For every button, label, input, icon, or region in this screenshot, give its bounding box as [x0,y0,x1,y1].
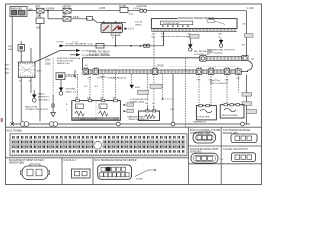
svg-text:VEHICLE SPEED: VEHICLE SPEED [222,115,239,117]
svg-text:TO INSTRUMENT CLUSTER: TO INSTRUMENT CLUSTER [82,55,111,57]
svg-text:1-B: 1-B [251,59,255,61]
svg-text:0.8 L/R: 0.8 L/R [135,22,142,24]
svg-text:2030: 2030 [45,59,51,62]
svg-text:TO TNS, TAIL RELAY: TO TNS, TAIL RELAY [66,43,88,46]
svg-text:3030: 3030 [5,72,11,74]
svg-text:3/C: 3/C [101,77,105,79]
svg-text:W-01 TRANSAXLE RANGE SW CENTER: W-01 TRANSAXLE RANGE SW CENTER [95,159,137,162]
svg-text:(4WD): 1-8: (4WD): 1-8 [66,92,77,94]
svg-text:GY: GY [84,86,88,88]
svg-text:C-04 IGN COLOUR SYS: C-04 IGN COLOUR SYS [223,149,248,151]
svg-text:S/G: S/G [209,80,213,82]
svg-text:0.8 B: 0.8 B [73,16,79,19]
svg-text:SWITCH (4WD): SWITCH (4WD) [207,52,223,54]
svg-text:WA-02: WA-02 [38,93,45,96]
svg-text:1/A: 1/A [152,32,156,35]
svg-text:4/D: 4/D [219,33,223,35]
svg-text:PCM: PCM [158,64,165,68]
svg-text:3030: 3030 [37,70,43,72]
svg-text:1/B: 1/B [170,109,174,111]
svg-text:(4WD): (4WD) [135,25,142,27]
svg-text:40A: 40A [8,48,12,51]
svg-text:0.3 B/R: 0.3 B/R [133,8,141,10]
svg-text:B-03 PULSE SIGNAL SHIFT: B-03 PULSE SIGNAL SHIFT [190,148,219,151]
svg-text:10A: 10A [63,14,68,17]
svg-text:0.8 B/W: 0.8 B/W [46,8,55,11]
svg-text:4 POSITION SW: 4 POSITION SW [163,23,180,25]
svg-text:TORQUE REDUCE: TORQUE REDUCE [130,99,149,101]
svg-text:GO: GO [94,86,98,88]
svg-text:D-02 DLC-2: D-02 DLC-2 [64,160,77,162]
svg-text:REFER TO: REFER TO [38,97,49,99]
svg-text:C 1-4: C 1-4 [128,29,134,31]
svg-text:C-02 TRANSAXLE RANGE: C-02 TRANSAXLE RANGE [223,129,251,132]
svg-text:GROUND 2: GROUND 2 [38,100,50,102]
svg-text:TO TNS 21-10: TO TNS 21-10 [82,51,97,53]
svg-text:BTN: BTN [36,6,41,9]
svg-text:VSS: VSS [225,80,230,82]
svg-text:GENERATOR: GENERATOR [193,121,206,124]
svg-text:2/B: 2/B [161,33,165,35]
svg-text:REFER 2-30: REFER 2-30 [57,63,70,65]
svg-text:D/R: D/R [8,46,12,48]
svg-text:0.8 G/O: 0.8 G/O [57,42,65,44]
svg-text:SHIFT SOLENOID: SHIFT SOLENOID [210,83,229,85]
svg-text:W-01 PCM(B): W-01 PCM(B) [7,129,23,132]
svg-text:METER: METER [63,6,72,9]
svg-text:4WD: 4WD [135,87,140,89]
svg-text:SENSOR (BM): SENSOR (BM) [9,163,24,165]
svg-text:TURBINE SHAFT: TURBINE SHAFT [129,115,146,118]
svg-text:3030: 3030 [5,68,11,70]
svg-text:WA-02 PCM: WA-02 PCM [25,105,37,108]
svg-text:S/MODE: S/MODE [67,74,76,76]
svg-text:2/E: 2/E [236,78,240,80]
svg-text:SHIFT SOLENOID: SHIFT SOLENOID [80,119,98,121]
svg-text:PARK/NEUTRAL POSITION: PARK/NEUTRAL POSITION [207,48,235,51]
svg-text:GROUND: GROUND [66,89,76,91]
svg-text:B-01 EXHAUST FRONT OXYGEN: B-01 EXHAUST FRONT OXYGEN [9,159,44,162]
svg-text:SIGNAL (4WD): SIGNAL (4WD) [130,101,144,104]
svg-text:TORQUE REDUCE: TORQUE REDUCE [107,78,127,80]
svg-text:CONNECTOR AT PCM: CONNECTOR AT PCM [25,108,48,111]
svg-text:2/C: 2/C [88,77,92,79]
svg-text:SPEED SENSOR: SPEED SENSOR [129,119,146,121]
svg-text:30A: 30A [28,8,33,11]
svg-text:15A: 15A [36,14,41,17]
svg-text:1-06: 1-06 [88,44,93,46]
svg-text:PULSE GEN: PULSE GEN [198,117,210,119]
svg-text:LEVER: LEVER [136,179,143,181]
svg-text:1/C: 1/C [75,77,79,79]
svg-text:IG SW: IG SW [119,5,127,8]
svg-text:1 1-09: 1 1-09 [247,7,254,10]
svg-text:TRANSAXLE RANGE SWITCH: TRANSAXLE RANGE SWITCH [178,16,214,20]
svg-text:P/G: P/G [197,80,201,82]
svg-text:3030: 3030 [5,64,11,66]
svg-text:MAIN ABS: MAIN ABS [11,8,23,11]
svg-text:2030: 2030 [45,63,51,66]
svg-text:0.8 B: 0.8 B [100,7,106,10]
